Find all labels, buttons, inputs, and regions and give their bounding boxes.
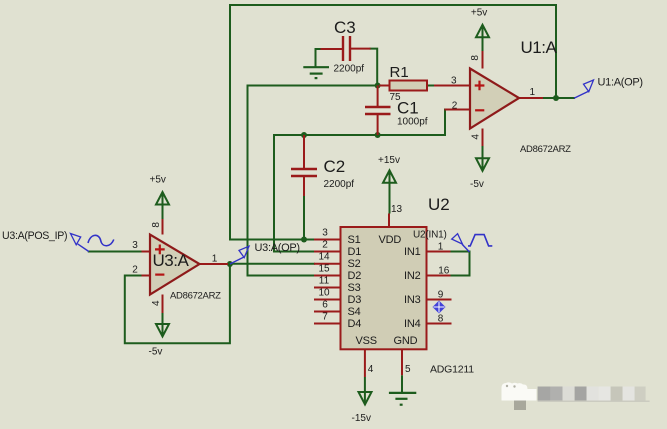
svg-text:D4: D4 bbox=[348, 318, 362, 330]
svg-text:+5v: +5v bbox=[150, 175, 166, 186]
wire bbox=[248, 85, 380, 87]
pin IN4 bbox=[427, 323, 452, 325]
ground (U2 pin5) bbox=[389, 375, 416, 404]
pin D4 bbox=[314, 323, 341, 325]
svg-text:2200pf: 2200pf bbox=[324, 179, 355, 190]
svg-text:11: 11 bbox=[319, 276, 330, 287]
pin D3 bbox=[314, 299, 341, 301]
node junction U1 output bbox=[553, 95, 559, 101]
power +15v bbox=[378, 155, 400, 214]
power +5v (U3) bbox=[150, 175, 170, 220]
wire bbox=[248, 275, 315, 277]
wire bbox=[229, 5, 231, 240]
power -5v (U1) bbox=[470, 146, 489, 190]
svg-text:-5v: -5v bbox=[149, 347, 163, 358]
svg-text:9: 9 bbox=[438, 290, 444, 301]
svg-text:U3:A(OP): U3:A(OP) bbox=[255, 242, 300, 254]
svg-text:+15v: +15v bbox=[378, 155, 400, 166]
svg-text:1: 1 bbox=[530, 87, 536, 98]
wire bbox=[89, 251, 142, 253]
wire bbox=[543, 97, 574, 99]
svg-text:IN3: IN3 bbox=[404, 294, 421, 306]
pin S3 bbox=[314, 287, 341, 289]
wire bbox=[230, 4, 556, 6]
power -5v (U3) bbox=[149, 313, 170, 358]
svg-text:15: 15 bbox=[318, 264, 330, 275]
wire bbox=[274, 251, 314, 253]
ground (C3) bbox=[303, 67, 329, 78]
node junction C2 bottom / S1 bbox=[301, 237, 307, 243]
svg-text:10: 10 bbox=[318, 288, 330, 299]
svg-text:S4: S4 bbox=[348, 306, 361, 318]
wire bbox=[555, 5, 557, 98]
svg-text:4: 4 bbox=[470, 134, 481, 140]
svg-text:C3: C3 bbox=[334, 18, 356, 37]
svg-text:S3: S3 bbox=[348, 282, 361, 294]
svg-text:7: 7 bbox=[322, 312, 328, 323]
wire bbox=[230, 239, 314, 241]
resistor R1 bbox=[379, 64, 427, 103]
wire bbox=[125, 264, 230, 343]
pin S4 bbox=[314, 311, 341, 313]
svg-text:AD8672ARZ: AD8672ARZ bbox=[170, 291, 221, 302]
svg-text:VSS: VSS bbox=[356, 335, 377, 347]
svg-text:16: 16 bbox=[438, 266, 450, 277]
op-amp U1 bbox=[434, 38, 571, 155]
svg-text:C2: C2 bbox=[324, 157, 346, 176]
wire bbox=[316, 49, 321, 67]
svg-text:6: 6 bbox=[322, 300, 328, 311]
svg-text:1: 1 bbox=[212, 254, 218, 265]
capacitor C2 bbox=[291, 135, 354, 196]
svg-text:IN2: IN2 bbox=[404, 270, 421, 282]
node junction U3 output bbox=[227, 261, 233, 267]
svg-text:-15v: -15v bbox=[352, 413, 371, 424]
svg-text:U1:A: U1:A bbox=[521, 38, 558, 57]
svg-text:5: 5 bbox=[405, 364, 411, 375]
svg-text:13: 13 bbox=[391, 204, 403, 215]
watermark bbox=[502, 382, 650, 410]
pin VSS bbox=[364, 349, 366, 377]
power +5v (U1) bbox=[471, 8, 489, 52]
svg-text:S2: S2 bbox=[348, 258, 361, 270]
svg-text:C1: C1 bbox=[397, 99, 419, 118]
node label U3:A(OP) bbox=[230, 242, 300, 264]
svg-text:4: 4 bbox=[151, 300, 162, 306]
marker (blue crosshair near pin 9) bbox=[433, 301, 446, 314]
pin S2 bbox=[314, 263, 341, 265]
node label U3:A(POS_IP) with sine symbol bbox=[2, 230, 114, 252]
svg-text:D2: D2 bbox=[348, 270, 362, 282]
svg-text:14: 14 bbox=[318, 252, 330, 263]
svg-text:IN1: IN1 bbox=[404, 246, 421, 258]
svg-text:1000pf: 1000pf bbox=[397, 117, 428, 128]
capacitor C3 bbox=[321, 18, 371, 75]
svg-text:2: 2 bbox=[452, 101, 458, 112]
pin IN1 bbox=[427, 251, 451, 253]
node junction C2 top bbox=[301, 132, 307, 138]
svg-text:+5v: +5v bbox=[471, 8, 487, 19]
op-amp U3 bbox=[132, 219, 228, 313]
svg-text:2: 2 bbox=[322, 240, 328, 251]
wire bbox=[451, 252, 470, 276]
wire bbox=[427, 85, 434, 87]
svg-text:U3:A(POS_IP): U3:A(POS_IP) bbox=[2, 230, 67, 242]
pin GND bbox=[401, 349, 403, 375]
node label U2(IN1) with pulse symbol bbox=[413, 230, 492, 253]
wire bbox=[247, 86, 249, 276]
svg-text:-5v: -5v bbox=[470, 179, 484, 190]
svg-text:8: 8 bbox=[151, 222, 162, 228]
wire bbox=[303, 196, 305, 240]
pin names bbox=[348, 234, 421, 347]
svg-text:4: 4 bbox=[368, 364, 374, 375]
pin S1 bbox=[314, 239, 341, 241]
svg-text:ADG1211: ADG1211 bbox=[430, 364, 474, 376]
svg-text:S1: S1 bbox=[348, 234, 361, 246]
wire bbox=[274, 134, 445, 136]
capacitor C1 bbox=[365, 86, 428, 136]
pin D1 bbox=[314, 251, 341, 253]
wire bbox=[444, 110, 446, 136]
svg-text:2200pf: 2200pf bbox=[334, 64, 365, 75]
svg-text:D3: D3 bbox=[348, 294, 362, 306]
node junction C1 bottom bbox=[375, 132, 381, 138]
wire bbox=[273, 135, 275, 252]
svg-text:1: 1 bbox=[438, 242, 444, 253]
svg-text:D1: D1 bbox=[348, 246, 362, 258]
svg-text:U1:A(OP): U1:A(OP) bbox=[598, 77, 643, 89]
node junction R1/C1/C3 bbox=[375, 83, 381, 89]
pin VDD bbox=[388, 214, 390, 228]
wire bbox=[230, 263, 314, 265]
svg-text:8: 8 bbox=[470, 55, 481, 61]
svg-text:VDD: VDD bbox=[379, 234, 402, 246]
power -15v bbox=[352, 377, 372, 424]
svg-text:8: 8 bbox=[438, 314, 444, 325]
svg-text:IN4: IN4 bbox=[404, 318, 421, 330]
svg-text:U2: U2 bbox=[428, 195, 450, 214]
svg-text:3: 3 bbox=[322, 228, 328, 239]
IC U2 ADG1211 bbox=[314, 195, 474, 377]
pin D2 bbox=[314, 275, 341, 277]
svg-text:3: 3 bbox=[451, 76, 457, 87]
svg-text:3: 3 bbox=[132, 240, 138, 251]
pin IN2 bbox=[427, 275, 451, 277]
svg-text:GND: GND bbox=[394, 335, 418, 347]
wire bbox=[371, 49, 378, 86]
node label U1:A(OP) bbox=[574, 77, 643, 99]
svg-text:U3:A: U3:A bbox=[153, 251, 190, 270]
svg-text:R1: R1 bbox=[390, 64, 409, 81]
svg-text:AD8672ARZ: AD8672ARZ bbox=[520, 144, 571, 155]
svg-text:2: 2 bbox=[132, 265, 138, 276]
svg-text:U2(IN1): U2(IN1) bbox=[413, 230, 447, 241]
pin IN3 bbox=[427, 299, 452, 301]
